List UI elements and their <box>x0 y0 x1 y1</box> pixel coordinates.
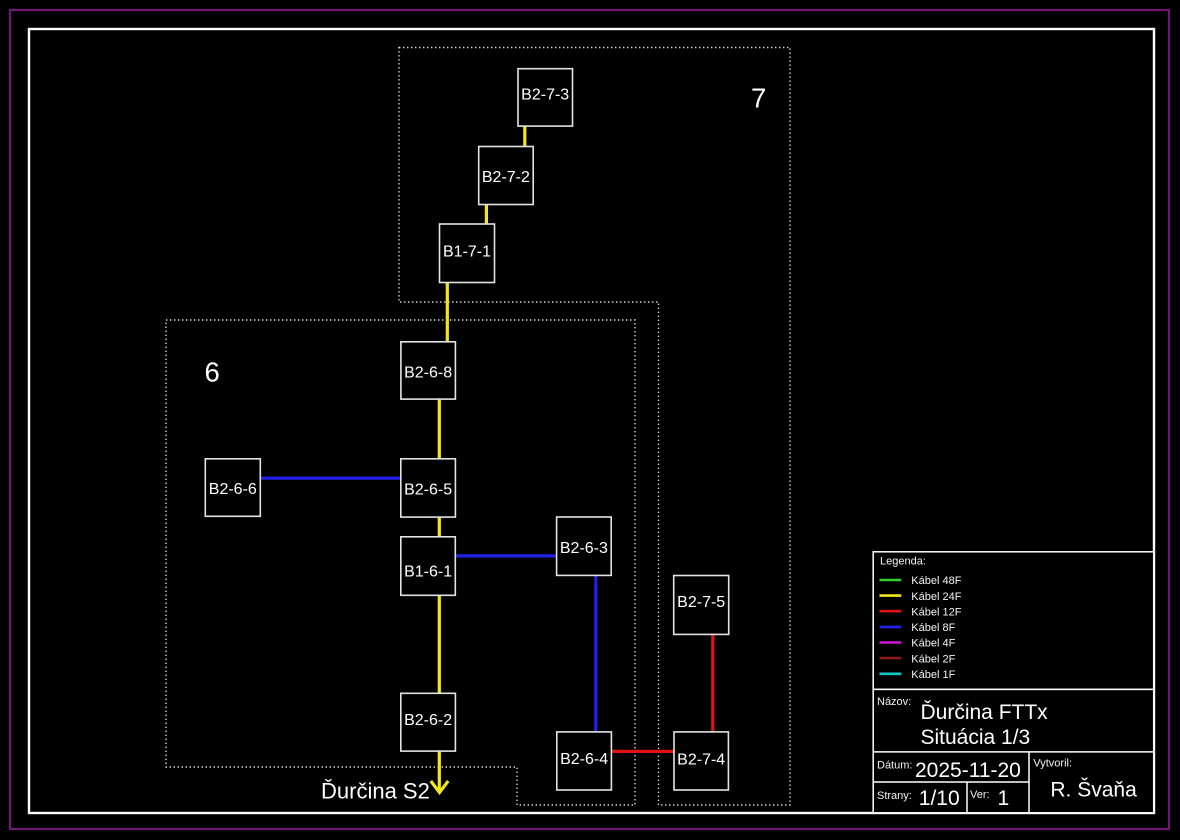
svg-text:B2-6-4: B2-6-4 <box>560 751 608 768</box>
svg-text:B2-7-4: B2-7-4 <box>677 751 725 768</box>
zone 7 dotted boundary <box>399 48 790 806</box>
box B2-7-5 <box>674 576 729 635</box>
svg-text:Kábel 2F: Kábel 2F <box>911 653 955 665</box>
svg-text:B2-7-2: B2-7-2 <box>482 169 530 186</box>
svg-text:1: 1 <box>998 787 1010 810</box>
svg-text:Vytvoril:: Vytvoril: <box>1033 757 1072 769</box>
legend swatch Kabel 1F <box>880 672 902 675</box>
box B2-6-5 <box>401 459 456 517</box>
cable 12F red B2-6-4 to B2-7-4 <box>610 750 676 753</box>
svg-text:B1-6-1: B1-6-1 <box>404 563 452 580</box>
svg-text:B2-6-3: B2-6-3 <box>560 540 608 557</box>
legend swatch Kabel 2F <box>880 657 902 660</box>
legend swatch Kabel 4F <box>880 641 902 644</box>
cable 24F yellow B2-6-8 to B2-6-5 <box>438 398 441 461</box>
title block line under Nazov <box>873 751 1153 753</box>
svg-text:B1-7-1: B1-7-1 <box>443 243 491 260</box>
legend swatch Kabel 48F <box>880 579 902 582</box>
legend swatch Kabel 24F <box>880 594 902 597</box>
legend swatch Kabel 12F <box>880 610 902 613</box>
svg-text:B2-7-5: B2-7-5 <box>677 594 725 611</box>
svg-text:Kábel 24F: Kábel 24F <box>911 591 961 603</box>
box B2-7-3 <box>518 69 573 126</box>
svg-text:B2-6-6: B2-6-6 <box>209 481 257 498</box>
cable 24F yellow B2-6-5 to B1-6-1 <box>438 516 441 540</box>
svg-text:Kábel 1F: Kábel 1F <box>911 669 955 681</box>
cable 24F yellow B2-7-3 to B2-7-2 <box>523 124 526 149</box>
svg-text:Kábel 8F: Kábel 8F <box>911 622 955 634</box>
svg-text:Ďurčina S2: Ďurčina S2 <box>321 779 430 804</box>
box B2-7-2 <box>479 147 534 205</box>
svg-text:Strany:: Strany: <box>877 790 912 802</box>
box B2-6-4 <box>557 732 612 790</box>
svg-text:B2-6-8: B2-6-8 <box>404 364 452 381</box>
cable 24F yellow B1-7-1 to B2-6-8 <box>446 280 449 344</box>
svg-text:Legenda:: Legenda: <box>880 555 926 567</box>
svg-text:2025-11-20: 2025-11-20 <box>915 759 1021 782</box>
svg-text:B2-6-5: B2-6-5 <box>404 482 452 499</box>
cable 8F blue B2-6-3 to B2-6-4 <box>594 574 597 734</box>
box B2-6-3 <box>557 517 612 575</box>
box B2-6-6 <box>205 459 260 517</box>
svg-text:Názov:: Názov: <box>877 696 911 708</box>
box B2-6-8 <box>401 342 456 399</box>
svg-text:Kábel 48F: Kábel 48F <box>911 575 961 587</box>
cable 12F red B2-7-5 to B2-7-4 <box>711 632 714 734</box>
svg-text:B2-7-3: B2-7-3 <box>521 87 569 104</box>
svg-text:6: 6 <box>205 357 220 388</box>
cable 24F yellow B1-6-1 to B2-6-2 <box>438 594 441 696</box>
svg-text:Kábel 4F: Kábel 4F <box>911 638 955 650</box>
box B2-6-2 <box>401 693 456 751</box>
svg-text:Ďurčina FTTx: Ďurčina FTTx <box>921 701 1049 724</box>
title block divider Datum/Vytvoril <box>1028 752 1030 813</box>
svg-text:Kábel 12F: Kábel 12F <box>911 606 961 618</box>
svg-text:1/10: 1/10 <box>919 787 960 810</box>
svg-text:R. Švaňa: R. Švaňa <box>1050 779 1137 802</box>
cable 24F yellow B2-6-2 to Durcina S2 arrow <box>438 750 441 791</box>
cable 8F blue B2-6-6 to B2-6-5 <box>259 477 402 480</box>
legend swatch Kabel 8F <box>880 626 902 629</box>
svg-text:Situácia 1/3: Situácia 1/3 <box>921 726 1031 749</box>
title block line under Datum <box>873 781 1029 783</box>
svg-text:B2-6-2: B2-6-2 <box>404 712 452 729</box>
box B1-7-1 <box>440 224 495 283</box>
box B2-7-4 <box>674 732 728 790</box>
zone 6 dotted boundary <box>166 320 635 805</box>
svg-text:Dátum:: Dátum: <box>877 759 912 771</box>
cable 24F yellow B2-7-2 to B1-7-1 <box>485 203 488 225</box>
arrowhead to Durcina S2 <box>431 781 448 793</box>
title block divider Strany/Ver <box>966 782 968 813</box>
box B1-6-1 <box>401 537 456 596</box>
cable 8F blue B1-6-1 to B2-6-3 <box>455 554 558 557</box>
title block outline <box>873 689 1153 812</box>
svg-text:7: 7 <box>751 83 766 114</box>
legend box <box>873 552 1153 690</box>
svg-text:Ver:: Ver: <box>970 789 990 801</box>
